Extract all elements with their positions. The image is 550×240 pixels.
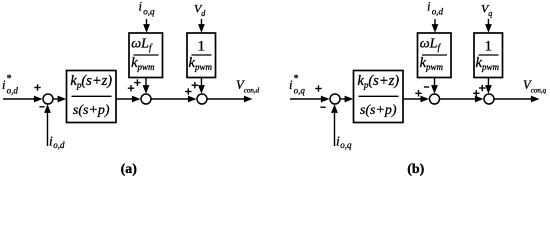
svg-text:1: 1 bbox=[485, 39, 493, 55]
svg-text:s(s+p): s(s+p) bbox=[73, 103, 110, 118]
svg-text:o,d: o,d bbox=[53, 140, 65, 150]
svg-text:q: q bbox=[488, 9, 492, 18]
svg-text:i: i bbox=[139, 0, 143, 14]
svg-text:(a): (a) bbox=[121, 162, 138, 177]
svg-text:i: i bbox=[289, 78, 293, 92]
svg-text:*: * bbox=[7, 74, 12, 85]
svg-text:i: i bbox=[2, 78, 6, 92]
svg-text:s(s+p): s(s+p) bbox=[360, 103, 397, 118]
svg-text:o,q: o,q bbox=[143, 7, 155, 17]
svg-text:kp(s+z): kp(s+z) bbox=[70, 73, 112, 90]
svg-text:con,q: con,q bbox=[531, 86, 547, 94]
svg-text:o,q: o,q bbox=[294, 86, 306, 96]
svg-text:kp(s+z): kp(s+z) bbox=[357, 73, 399, 90]
svg-text:con,d: con,d bbox=[244, 86, 260, 94]
svg-text:o,q: o,q bbox=[340, 140, 352, 150]
svg-text:*: * bbox=[294, 74, 299, 85]
svg-text:o,d: o,d bbox=[7, 86, 19, 96]
svg-text:(b): (b) bbox=[407, 162, 424, 177]
svg-text:1: 1 bbox=[198, 39, 206, 55]
svg-text:i: i bbox=[427, 0, 431, 14]
svg-text:o,d: o,d bbox=[432, 7, 444, 17]
